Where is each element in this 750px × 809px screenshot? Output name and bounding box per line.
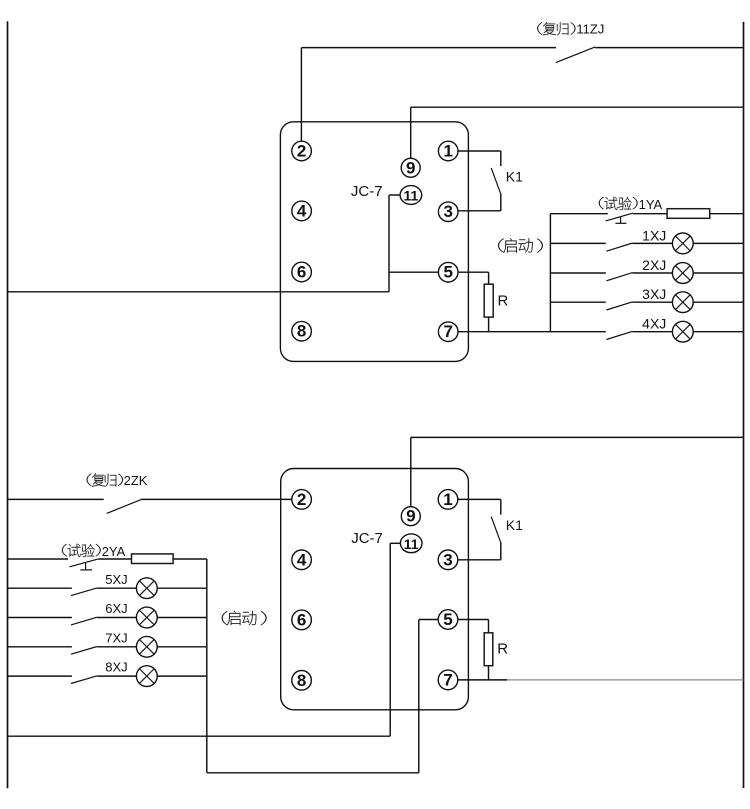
svg-text:7XJ: 7XJ [105, 630, 127, 645]
resistor R (U2) [484, 633, 493, 666]
wire: 2YA row middle [98, 558, 131, 560]
svg-text:1: 1 [443, 142, 452, 161]
wire: 4XJ row to lamp [633, 331, 673, 333]
svg-text:11ZJ: 11ZJ [576, 21, 604, 36]
switch 1YA blade [606, 213, 634, 221]
wire: 2XJ row right [693, 272, 743, 274]
wire: 2YA row left [8, 558, 69, 560]
svg-text:3XJ: 3XJ [642, 286, 666, 302]
pin 7 (U1) [438, 322, 458, 342]
wire: pin 5 to resistor R (U2) [457, 620, 488, 633]
pin 6 (U2) [292, 610, 312, 630]
svg-text:2YA: 2YA [102, 544, 126, 559]
pin 11 (U1) [400, 186, 422, 205]
wire: pin 5 to resistor R (U1) [458, 272, 489, 284]
svg-text:6: 6 [297, 610, 306, 629]
wire: 1YA row right [710, 213, 744, 215]
wire: 1XJ row left [550, 242, 605, 244]
contact K1 (U2) wiring [457, 499, 501, 559]
switch 2ZK blade [107, 500, 141, 514]
svg-text:6: 6 [297, 263, 306, 282]
svg-text:JC-7: JC-7 [351, 530, 383, 547]
switch 5XJ blade [71, 588, 97, 596]
pin 1 (U2) [438, 490, 458, 510]
wire: top supply line left segment [301, 47, 556, 49]
lamp 7XJ [136, 636, 157, 657]
label (试验)1YA [599, 197, 663, 212]
label (试验)2YA [62, 544, 126, 559]
label (复归)11ZJ [537, 21, 604, 36]
wire: 1XJ row to lamp [633, 242, 673, 244]
wire: 2XJ row left [550, 272, 605, 274]
label JC-7 (U2) [351, 530, 383, 547]
wire: 2ZK row from left rail to pin 2 (U2) [8, 498, 293, 500]
svg-text:8XJ: 8XJ [105, 660, 127, 675]
svg-text:1XJ: 1XJ [642, 227, 666, 243]
wire: right bus rail [743, 22, 745, 788]
wire: pin 5 (U2) down to lamp bus return [207, 620, 439, 773]
pin 6 (U1) [292, 262, 312, 282]
label K1 (U1) [506, 168, 523, 184]
pin 4 (U2) [292, 550, 312, 570]
pin 4 (U1) [292, 201, 312, 221]
wire: 4XJ row right [693, 331, 743, 333]
svg-text:2: 2 [297, 490, 306, 509]
lamp 1XJ [672, 233, 693, 254]
label 2XJ [642, 257, 666, 273]
svg-text:4: 4 [297, 201, 307, 220]
switch 8XJ blade [71, 676, 97, 684]
wire: resistor R to pin 7 row (U1) [488, 317, 490, 332]
switch 3XJ blade [606, 302, 632, 310]
svg-text:7: 7 [443, 322, 452, 341]
label JC-7 (U1) [351, 183, 383, 200]
relay U2 JC-7 case [281, 469, 469, 710]
svg-text:4XJ: 4XJ [642, 316, 666, 332]
wire: pin 2 drop from top line [300, 48, 302, 142]
wire: 2YA row right [173, 558, 207, 560]
wire: pin 7 (U2) right black segment [457, 679, 507, 681]
lamp 8XJ [136, 666, 157, 687]
switch 1XJ blade [606, 243, 632, 251]
lamp 6XJ [136, 607, 157, 628]
lamp 2XJ [672, 263, 693, 284]
label 6XJ [105, 601, 127, 616]
label R (U1) [498, 292, 509, 309]
wire: 1YA row left [550, 213, 607, 215]
wire: 5XJ row to lamp [97, 587, 136, 589]
svg-text:R: R [498, 292, 509, 309]
pin 2 (U1) [292, 141, 312, 161]
wire: 8XJ row left [8, 675, 72, 677]
lamp 5XJ [136, 578, 157, 599]
svg-text:11: 11 [404, 536, 419, 552]
wire: 7XJ row right [157, 646, 207, 648]
label (启动) upper [498, 238, 543, 252]
pin 3 (U2) [438, 550, 458, 570]
svg-text:6XJ: 6XJ [105, 601, 127, 616]
switch 1YA test button symbol [615, 217, 626, 224]
pin 8 (U1) [292, 321, 312, 341]
contact K1 (U1) blade [491, 168, 500, 193]
pin 8 (U2) [292, 671, 312, 691]
svg-text:2ZK: 2ZK [124, 473, 148, 488]
contact K1 (U2) blade [491, 517, 500, 542]
pin 2 (U2) [292, 490, 312, 510]
svg-text:9: 9 [406, 507, 415, 526]
wire: 8XJ row to lamp [97, 675, 136, 677]
svg-text:2XJ: 2XJ [642, 257, 666, 273]
pin 9 (U1) [401, 158, 420, 177]
wire: pin 7 to lamp bus (U1) [458, 331, 551, 333]
pin 11 (U2) [400, 534, 422, 553]
relay U1 JC-7 case [280, 122, 468, 362]
lamp 3XJ [672, 292, 693, 313]
switch 2YA blade [70, 559, 99, 567]
switch 2YA test button symbol [80, 563, 92, 570]
svg-text:8: 8 [297, 671, 306, 690]
wire: resistor R to pin 7 row (U2) [488, 666, 490, 680]
label (启动) lower [222, 611, 267, 625]
wire: 5XJ row right [157, 587, 207, 589]
wire: 3XJ row left [550, 301, 605, 303]
wire: pin 11 to left rail (via interior) [8, 195, 401, 292]
wire: pin 9 feed line (U2) [411, 437, 744, 506]
wire: left bus rail [7, 21, 9, 788]
lamp 4XJ [672, 321, 693, 342]
resistor R (U1) [484, 284, 493, 317]
wire: 1YA row middle [633, 213, 667, 215]
wire: lamp group bus (lower) [206, 559, 208, 773]
wire: 6XJ row right [157, 617, 207, 619]
wire: top supply line right segment [595, 47, 743, 49]
pin 5 (U1) [438, 262, 458, 282]
wire: pin 7 (U2) to right rail (faint) [507, 679, 744, 681]
label 4XJ [642, 316, 666, 332]
svg-text:7: 7 [443, 670, 452, 689]
svg-text:K1: K1 [506, 168, 523, 184]
wire: 7XJ row to lamp [97, 646, 136, 648]
label 7XJ [105, 630, 127, 645]
label 5XJ [105, 572, 127, 587]
resistor 1YA [667, 209, 710, 219]
wire: pin 11 (U2) down to bottom rail [8, 543, 401, 736]
pin 7 (U2) [438, 670, 458, 690]
svg-text:JC-7: JC-7 [351, 183, 383, 200]
wire: 3XJ row to lamp [633, 301, 673, 303]
svg-text:2: 2 [297, 142, 306, 161]
svg-text:5XJ: 5XJ [105, 572, 127, 587]
svg-text:1: 1 [443, 490, 452, 509]
label K1 (U2) [506, 517, 523, 533]
wire: 6XJ row to lamp [97, 617, 136, 619]
svg-text:5: 5 [443, 263, 452, 282]
wire: 7XJ row left [8, 646, 72, 648]
switch 7XJ blade [71, 647, 97, 655]
wire: 3XJ row right [693, 301, 743, 303]
resistor 2YA [132, 554, 174, 564]
wire: branch to pin 5 [389, 271, 439, 273]
wire: 8XJ row right [157, 675, 207, 677]
label 1XJ [642, 227, 666, 243]
svg-text:K1: K1 [506, 517, 523, 533]
svg-text:3: 3 [443, 202, 452, 221]
switch 4XJ blade [606, 331, 632, 339]
wire: 6XJ row left [8, 617, 72, 619]
wire: 4XJ row left [550, 331, 605, 333]
label 3XJ [642, 286, 666, 302]
label R (U2) [497, 640, 508, 657]
label (复归)2ZK [87, 473, 148, 488]
pin 1 (U1) [438, 141, 458, 161]
pin 9 (U2) [401, 507, 420, 526]
label 8XJ [105, 660, 127, 675]
pin 5 (U2) [438, 610, 458, 630]
wire: 5XJ row left [8, 587, 72, 589]
wire: pin 9 feed line [411, 107, 744, 158]
wire: lamp group bus (upper) [549, 214, 551, 332]
svg-text:9: 9 [406, 158, 415, 177]
contact K1 (U1) wiring [458, 151, 501, 211]
svg-text:8: 8 [297, 322, 306, 341]
svg-text:3: 3 [443, 550, 452, 569]
svg-text:4: 4 [297, 550, 307, 569]
wire: 1XJ row right [693, 242, 743, 244]
switch 11ZJ blade [556, 47, 595, 63]
switch 2XJ blade [606, 273, 632, 281]
switch 6XJ blade [71, 617, 97, 625]
pin 3 (U1) [438, 202, 458, 222]
svg-text:1YA: 1YA [639, 197, 663, 212]
svg-text:11: 11 [403, 188, 418, 204]
wire: 2XJ row to lamp [633, 272, 673, 274]
svg-text:R: R [497, 640, 508, 657]
svg-text:5: 5 [443, 610, 452, 629]
